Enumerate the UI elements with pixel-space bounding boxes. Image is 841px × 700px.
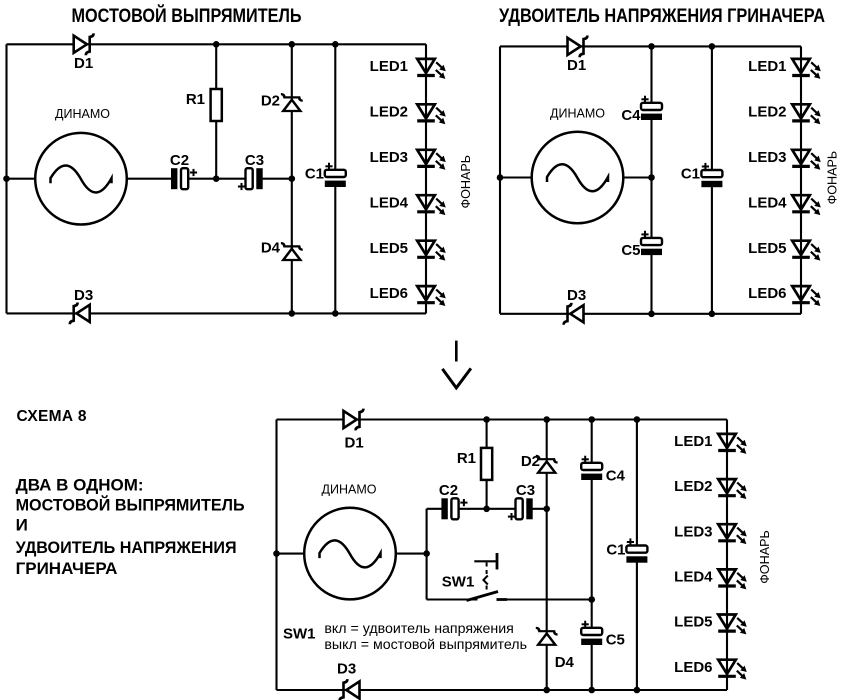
svg-text:C3: C3 [245,152,264,169]
svg-text:LED3: LED3 [370,149,408,166]
svg-text:LED6: LED6 [748,285,786,302]
svg-text:C4: C4 [606,467,626,484]
svg-text:LED4: LED4 [674,569,713,586]
svg-text:R1: R1 [457,450,476,467]
svg-text:C1: C1 [681,166,700,183]
svg-text:ГРИНАЧЕРА: ГРИНАЧЕРА [16,559,118,578]
svg-text:LED6: LED6 [674,659,712,676]
svg-text:LED4: LED4 [370,194,409,211]
svg-text:D3: D3 [567,287,586,304]
svg-text:D1: D1 [74,55,93,72]
svg-text:D4: D4 [261,240,281,257]
svg-text:выкл = мостовой выпрямитель: выкл = мостовой выпрямитель [324,637,527,653]
svg-text:LED1: LED1 [370,58,408,75]
svg-text:ДИНАМО: ДИНАМО [55,107,110,121]
svg-text:LED5: LED5 [674,614,712,631]
svg-text:LED3: LED3 [748,149,786,166]
svg-text:C2: C2 [439,482,458,499]
svg-text:вкл = удвоитель напряжения: вкл = удвоитель напряжения [324,621,513,637]
svg-text:ДИНАМО: ДИНАМО [322,483,377,497]
svg-text:SW1: SW1 [283,626,316,643]
svg-text:МОСТОВОЙ ВЫПРЯМИТЕЛЬ: МОСТОВОЙ ВЫПРЯМИТЕЛЬ [72,5,302,27]
svg-text:ФОНАРЬ: ФОНАРЬ [459,155,473,209]
svg-text:D3: D3 [337,661,356,678]
svg-text:И: И [16,515,28,534]
svg-text:LED2: LED2 [674,478,712,495]
svg-text:C2: C2 [170,152,189,169]
svg-text:LED1: LED1 [674,433,712,450]
svg-text:C1: C1 [305,166,324,183]
svg-text:УДВОИТЕЛЬ НАПРЯЖЕНИЯ: УДВОИТЕЛЬ НАПРЯЖЕНИЯ [16,538,237,557]
svg-text:ФОНАРЬ: ФОНАРЬ [758,530,772,584]
svg-text:D1: D1 [567,57,586,74]
svg-text:ДИНАМО: ДИНАМО [550,107,605,121]
svg-text:C5: C5 [606,632,625,649]
svg-text:LED4: LED4 [748,194,787,211]
svg-text:C1: C1 [606,541,625,558]
svg-text:УДВОИТЕЛЬ НАПРЯЖЕНИЯ ГРИНАЧЕРА: УДВОИТЕЛЬ НАПРЯЖЕНИЯ ГРИНАЧЕРА [499,6,825,27]
svg-text:D3: D3 [74,287,93,304]
svg-text:LED1: LED1 [748,58,786,75]
svg-text:LED6: LED6 [370,285,408,302]
svg-text:LED5: LED5 [370,240,408,257]
svg-text:D4: D4 [555,654,575,671]
svg-text:D1: D1 [345,435,364,452]
svg-text:D2: D2 [261,93,280,110]
svg-text:МОСТОВОЙ ВЫПРЯМИТЕЛЬ: МОСТОВОЙ ВЫПРЯМИТЕЛЬ [16,495,245,514]
svg-text:C3: C3 [516,482,535,499]
svg-text:C5: C5 [621,242,640,259]
svg-text:ДВА В ОДНОМ:: ДВА В ОДНОМ: [16,475,144,494]
svg-text:LED3: LED3 [674,523,712,540]
svg-text:D2: D2 [521,453,540,470]
svg-text:R1: R1 [186,91,205,108]
svg-text:SW1: SW1 [442,574,475,591]
svg-text:C4: C4 [621,107,641,124]
svg-text:LED2: LED2 [748,103,786,120]
svg-text:ФОНАРЬ: ФОНАРЬ [826,151,840,205]
svg-text:LED2: LED2 [370,103,408,120]
svg-text:LED5: LED5 [748,240,786,257]
svg-text:СХЕМА 8: СХЕМА 8 [17,408,87,425]
